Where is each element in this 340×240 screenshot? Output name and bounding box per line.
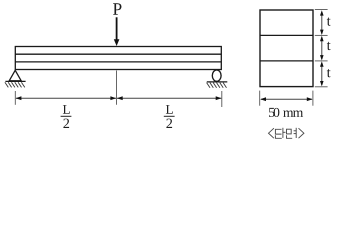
caption hangul DAN final n	[275, 135, 281, 138]
extension line right	[221, 91, 223, 107]
caption hangul MYEON final n	[287, 135, 293, 138]
caption hangul MYEON consonant m	[287, 129, 292, 134]
50mm dimension arrow	[260, 97, 312, 101]
right support ground line	[207, 81, 228, 83]
load arrow P	[114, 17, 120, 46]
section layer line 2	[260, 60, 313, 62]
extension line left	[14, 91, 16, 105]
t dimension arrow 3	[320, 61, 324, 86]
beam lamination line 1	[15, 53, 221, 55]
beam outline	[15, 47, 221, 70]
caption hangul DAN vowel a	[283, 128, 286, 138]
caption angle bracket right	[299, 128, 304, 138]
label L/2 right	[164, 105, 175, 128]
right support hatching	[207, 83, 227, 88]
left support hatching	[5, 82, 25, 87]
label t (middle layer)	[327, 42, 331, 50]
t dimension arrow 2	[320, 36, 324, 61]
caption angle bracket left	[269, 128, 274, 138]
dimension line left span	[16, 96, 117, 100]
tick marks for t dimensions	[315, 10, 328, 87]
label L/2 left	[61, 105, 72, 128]
dimension line right span	[117, 96, 222, 100]
label t (top layer)	[327, 17, 331, 25]
50mm extension line left	[259, 91, 261, 106]
right roller support circle	[212, 70, 221, 81]
left support ground line	[5, 80, 25, 82]
beam lamination line 2	[15, 61, 221, 63]
caption hangul MYEON vowel yeo	[294, 128, 297, 138]
load label P	[113, 3, 121, 14]
caption hangul DAN consonant d	[275, 129, 281, 134]
label t (bottom layer)	[327, 69, 331, 77]
left pin support triangle	[9, 70, 21, 81]
extension line center	[116, 71, 118, 105]
section layer line 1	[260, 34, 313, 36]
t dimension arrow 1	[320, 10, 324, 35]
cross-section rectangle	[260, 10, 313, 87]
label 50 mm	[269, 108, 275, 117]
50mm extension line right	[312, 91, 314, 106]
